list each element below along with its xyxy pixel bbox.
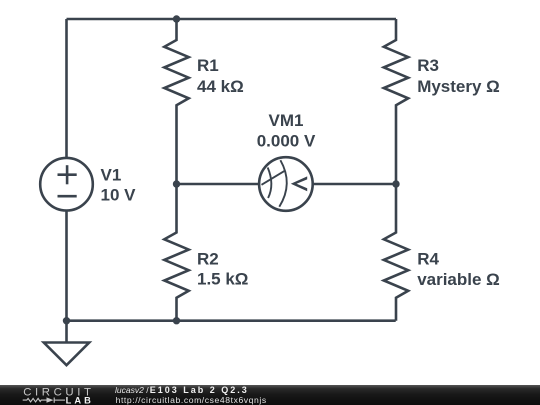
svg-text:V1: V1	[101, 165, 122, 184]
node middle-right junction	[392, 180, 399, 187]
node bottom-mid junction	[173, 317, 180, 324]
svg-text:1.5 kΩ: 1.5 kΩ	[197, 270, 248, 289]
svg-text:LAB: LAB	[66, 396, 94, 405]
svg-text:variable Ω: variable Ω	[417, 270, 500, 289]
wire middle left	[177, 183, 259, 186]
svg-text:R2: R2	[197, 249, 219, 268]
resistor R1	[164, 19, 188, 184]
wire top rail	[67, 18, 397, 21]
footer bar	[0, 385, 540, 405]
node bottom-left junction	[63, 317, 70, 324]
node middle-left junction	[173, 180, 180, 187]
svg-text:10 V: 10 V	[101, 186, 137, 205]
svg-text:Mystery Ω: Mystery Ω	[417, 77, 500, 96]
footer url text	[116, 396, 267, 405]
resistor R3	[384, 19, 408, 184]
voltage source V1	[40, 158, 93, 211]
svg-text:0.000 V: 0.000 V	[257, 131, 316, 150]
wire middle right	[313, 183, 396, 186]
svg-text:VM1: VM1	[269, 111, 304, 130]
wire V1 bottom lead	[65, 212, 68, 321]
wire V1 top lead	[65, 19, 68, 157]
CircuitLab logo	[0, 384, 110, 405]
svg-text:R3: R3	[417, 56, 439, 75]
voltmeter VM1	[259, 157, 313, 211]
resistor R4	[384, 184, 408, 321]
svg-text:44 kΩ: 44 kΩ	[197, 77, 244, 96]
ground	[44, 321, 89, 366]
node top junction	[173, 15, 180, 22]
wire bottom rail	[67, 319, 396, 322]
footer title text	[115, 386, 249, 395]
svg-text:R1: R1	[197, 56, 219, 75]
svg-text:R4: R4	[417, 249, 439, 268]
resistor R2	[164, 184, 188, 321]
